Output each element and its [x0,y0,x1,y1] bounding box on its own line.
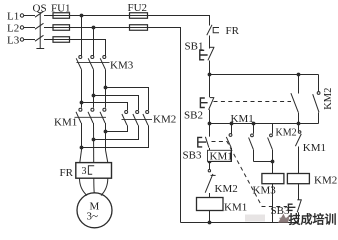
contactor KM1 main contact 1 [79,108,82,111]
wire phase A vertical top [81,16,83,56]
wire phase C lower [105,123,107,150]
wire L1 row FU1 to FU2 [70,15,130,17]
wire SB2 linkage dashed [214,101,292,103]
contactor KM3 main contact 1 [79,56,82,59]
fuse FU1 element 2 [53,25,70,31]
svg-text:KM2: KM2 [323,88,334,110]
wire KM2 col1 to phase C [106,125,128,131]
button SB2 NO contact [209,75,211,98]
wire phase A KM3 to KM1 [81,69,83,108]
wire KM2 col3 to phase A [82,125,149,147]
node KM1 coil to bus [208,221,212,225]
svg-text:3~: 3~ [87,211,99,223]
svg-text:SB3: SB3 [183,150,202,162]
thermal relay FR heater box [76,163,112,179]
wire phase C into FR [106,150,108,163]
wire FR to motor 2 [93,178,95,193]
node phase C branch [104,86,108,90]
svg-text:KM1: KM1 [303,142,326,154]
svg-text:FR: FR [226,25,240,37]
contactor KM2 linkage bar [122,118,153,120]
wire KM3 coil to bus [272,184,274,223]
motor M circle [77,193,112,228]
wire bottom bus [181,222,299,224]
contactor KM1 auxiliary NO self-hold contact [230,122,234,126]
svg-text:KM1: KM1 [231,113,254,125]
wire phase C KM3 to KM1 [105,69,107,108]
svg-text:FR: FR [60,167,74,179]
wire L2 terminal to QS [24,27,35,29]
svg-text:技成培训: 技成培训 [289,211,337,226]
contactor KM2 auxiliary NO self-hold contact [318,75,320,92]
svg-text:KM2: KM2 [314,174,337,186]
wire phase A into FR [80,150,82,163]
node junction L1-phaseA [80,14,84,18]
wire phase B KM3 to KM1 [93,69,95,108]
svg-text:KM2: KM2 [276,127,297,138]
wire QS pole1 to FU1 [44,15,53,17]
switch QS linkage end bar [36,48,44,50]
svg-text:SB2: SB2 [184,110,203,122]
button SB1 NC contact [200,50,208,60]
wire QS pole3 to FU1 [44,39,53,41]
coil KM1 [197,198,224,211]
node D junction [208,160,212,164]
contactor KM2 main contact 2 [136,111,139,114]
wire node A bus [210,74,319,76]
node pair join [271,160,275,164]
watermark logo [278,214,290,223]
wire to KM3 coil [272,162,274,174]
node L1 terminal [20,14,23,17]
wire phase A to KM2 col1 [82,103,128,111]
fuse FU1 element 3 [53,37,70,43]
node B right junction [297,122,301,126]
contactor KM2 main contact 3 [146,111,149,114]
contactor KM1 linkage bar [75,116,107,118]
node phase A branch [80,101,84,105]
wire L3 row FU1 to corner [70,40,106,56]
wire L1 terminal to QS [24,15,35,17]
contactor KM1 main contact 3 [103,108,106,111]
watermark ghost smudge [245,215,265,222]
wire phase B to KM2 col2 [94,96,139,111]
wire L2 row FU1 to FU2 [70,27,130,29]
svg-text:KM2: KM2 [153,114,176,126]
relay FR NC contact in control branch [207,25,212,35]
contactor KM2 auxiliary NO contact for KM3 [272,124,274,134]
svg-text:KM2: KM2 [215,183,238,195]
wire L2 row FU2 to left control rail [148,28,181,223]
switch QS linkage bar [39,12,41,49]
node A junction [208,73,212,77]
node phase A merge [80,146,84,150]
node B junction [208,122,212,126]
wire SB3 linkage dashed [212,142,288,207]
contactor KM2 auxiliary NC interlock contact [209,162,211,170]
svg-text:3: 3 [82,166,87,177]
switch QS pole 2 blade [35,23,44,29]
wire phase B lower [93,123,95,163]
svg-text:KM3: KM3 [253,185,277,197]
svg-text:FU2: FU2 [128,2,148,14]
contactor KM1 auxiliary NO contact for KM3 [252,122,256,126]
svg-text:L1: L1 [7,11,19,23]
node L3 terminal [20,38,23,41]
contactor KM3 linkage bar [77,62,110,64]
svg-text:L2: L2 [7,23,19,35]
wire FR to motor 3 [101,178,108,195]
svg-text:L3: L3 [7,35,20,47]
fuse FU2 element 1 [130,13,148,19]
svg-text:SB1: SB1 [185,41,204,53]
watermark logo dash [280,217,289,219]
node phase C merge [104,130,108,134]
thermal relay FR heater element symbol [88,166,94,174]
wire KM2 col2 to phase B [94,125,139,139]
svg-text:KM3: KM3 [110,60,134,72]
contactor KM3 main contact 3 [103,56,106,59]
coil KM3 [262,174,284,184]
svg-text:SB3: SB3 [271,205,290,217]
switch QS pole 3 blade [35,35,44,41]
wire node B bus [210,123,319,125]
svg-text:QS: QS [33,3,47,15]
switch QS pole 1 blade [35,11,44,17]
svg-text:KM1: KM1 [54,116,77,128]
node L2 terminal [20,26,23,29]
wire phase C to KM2 col3 [106,88,149,111]
wire FR to motor 1 [80,178,88,195]
node junction L2-phaseB [92,26,96,30]
node phase B branch [92,94,96,98]
svg-text:FU1: FU1 [51,3,71,15]
button SB3 NC contact [298,184,300,200]
coil KM2 [287,174,309,184]
wire QS pole2 to FU1 [44,27,53,29]
svg-text:KM1: KM1 [210,151,233,163]
node phase B merge [92,138,96,142]
wire phase A lower [81,123,83,150]
contactor KM2 main contact 1 [125,111,128,114]
contactor KM1 auxiliary NC interlock contact [298,124,300,131]
fuse FU1 element 1 [53,13,70,19]
button SB3 NO contact [209,124,211,137]
wire phase B vertical top [93,28,95,56]
label KM1 boxed [208,150,232,161]
fuse FU2 element 2 [130,25,148,31]
wire join of pair [254,161,273,163]
svg-text:KM1: KM1 [224,201,247,213]
button SB2 NC interlock contact [297,73,301,77]
wire L1 row FU2 to control rail corner [148,16,210,26]
wire L3 terminal to QS [24,39,35,41]
contactor KM1 main contact 2 [91,108,94,111]
contactor KM3 main contact 2 [91,56,94,59]
